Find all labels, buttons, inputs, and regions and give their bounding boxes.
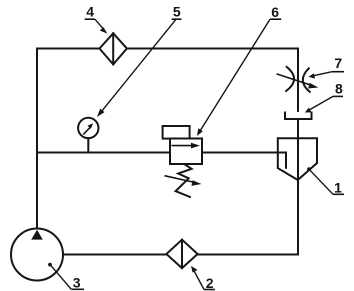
svg-text:8: 8	[335, 81, 343, 97]
svg-text:3: 3	[73, 275, 81, 291]
svg-text:7: 7	[334, 55, 342, 71]
svg-text:2: 2	[206, 275, 214, 291]
svg-text:1: 1	[334, 180, 342, 196]
svg-text:4: 4	[86, 4, 94, 20]
svg-text:6: 6	[271, 4, 279, 20]
svg-text:5: 5	[173, 4, 181, 20]
